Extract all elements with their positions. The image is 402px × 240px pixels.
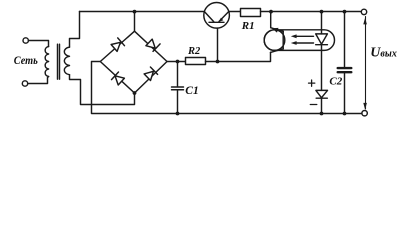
wire LED cathode down: [321, 45, 323, 91]
voltage arrow Uвых: [365, 17, 367, 110]
LED of optocoupler: [316, 34, 328, 44]
wire top rail left section: [80, 11, 205, 13]
phototransistor collector lead with arrow: [271, 28, 283, 32]
wire C2 upper: [344, 12, 346, 67]
transistor VT1: [204, 3, 230, 29]
resistor R1: [241, 9, 261, 17]
wire secondary bottom to bridge bottom: [70, 75, 135, 105]
diode VD1 upper-left: [111, 42, 120, 51]
resistor R2: [186, 58, 206, 65]
terminal output minus: [362, 111, 367, 116]
svg-text:С1: С1: [185, 85, 198, 97]
capacitor C2: [338, 68, 352, 72]
svg-text:Uвых: Uвых: [370, 46, 397, 61]
optocoupler phototransistor circle: [264, 30, 285, 51]
terminal X1 input top: [23, 38, 28, 43]
wire bridge top vertex lead: [134, 12, 136, 32]
terminal X2 input bottom: [22, 81, 27, 86]
wire bridge right to R2: [167, 61, 186, 63]
junction dot C2 top: [343, 10, 347, 14]
phototransistor base bar: [282, 31, 284, 48]
wire top rail right section: [261, 11, 362, 13]
wire C2 lower: [344, 73, 346, 113]
junction dot opto collector: [269, 10, 273, 14]
light arrow 1: [296, 35, 314, 37]
transformer T1 secondary winding: [64, 47, 69, 75]
optocoupler U1 body: [264, 30, 334, 51]
transformer T1 core: [58, 44, 60, 79]
diode VD5: [316, 90, 328, 97]
wire rail transistor to R1: [229, 11, 241, 13]
wire input bottom to primary: [28, 77, 49, 84]
capacitor C1: [172, 87, 184, 90]
svg-text:R1: R1: [241, 20, 255, 32]
junction dot VD5 bottom: [320, 112, 324, 116]
svg-text:С2: С2: [329, 75, 342, 87]
transformer T1 primary winding: [45, 47, 48, 77]
light arrow 2: [296, 42, 314, 44]
wire input top to primary: [29, 41, 49, 47]
bridge rectifier diamond: [100, 31, 167, 93]
wire opto collector lead: [270, 12, 272, 28]
junction dot LED top: [320, 10, 324, 14]
junction dot bridge bottom: [133, 91, 137, 95]
junction dot transistor base: [216, 60, 220, 64]
junction dot bridge top: [133, 10, 137, 14]
junction dot C1 bottom: [176, 112, 180, 116]
diode VD3 lower-left: [115, 76, 124, 85]
phototransistor emitter lead: [271, 49, 284, 53]
wire VD5 cathode to rail: [321, 98, 323, 113]
wire R2 to optocoupler emitter: [206, 52, 271, 61]
diode VD2 upper-right: [146, 39, 155, 48]
minus sign: [310, 104, 317, 106]
junction dot C2 bottom: [343, 112, 347, 116]
plus sign: [309, 80, 315, 86]
svg-text:Сеть: Сеть: [14, 53, 38, 67]
wire transistor base lead: [217, 22, 219, 61]
junction dot C1 top: [176, 60, 180, 64]
wire secondary top to rail: [70, 12, 80, 48]
svg-text:R2: R2: [187, 46, 201, 57]
wire bridge left stub and bottom rail: [92, 62, 362, 114]
wire LED anode: [321, 12, 323, 34]
diode VD4 lower-right: [144, 71, 153, 80]
terminal output plus: [361, 9, 366, 14]
wire C1 drop: [177, 62, 179, 114]
